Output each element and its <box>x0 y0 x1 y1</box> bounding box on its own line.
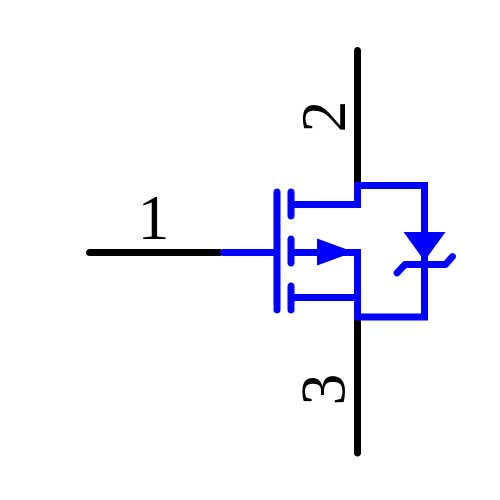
wire: body stub <box>291 249 361 256</box>
transistor Q1: channel segment middle (body) <box>288 239 295 263</box>
transistor Q1: body arrow <box>317 239 354 266</box>
diode D1 (body zener): anode triangle <box>404 232 446 261</box>
svg-text:1: 1 <box>138 182 170 253</box>
wire: drain stub, top bar, right loop, bottom bar, source vertical <box>291 186 425 318</box>
transistor Q1: channel segment bottom (source side) <box>288 286 295 310</box>
transistor Q1: gate lead wire (blue) <box>224 249 278 256</box>
wire: pin 2 drain lead (black) <box>354 51 361 187</box>
wire: pin 1 gate lead (black) <box>90 249 221 256</box>
svg-text:2: 2 <box>288 101 359 133</box>
svg-text:3: 3 <box>288 374 359 406</box>
transistor Q1: channel segment top (drain side) <box>288 192 295 216</box>
transistor Q1: gate bar <box>274 192 281 310</box>
wire: source stub <box>291 294 358 301</box>
wire: pin 3 source lead (black) <box>354 317 361 453</box>
diode D1 (body zener): cathode bar with bent ends <box>397 257 453 274</box>
